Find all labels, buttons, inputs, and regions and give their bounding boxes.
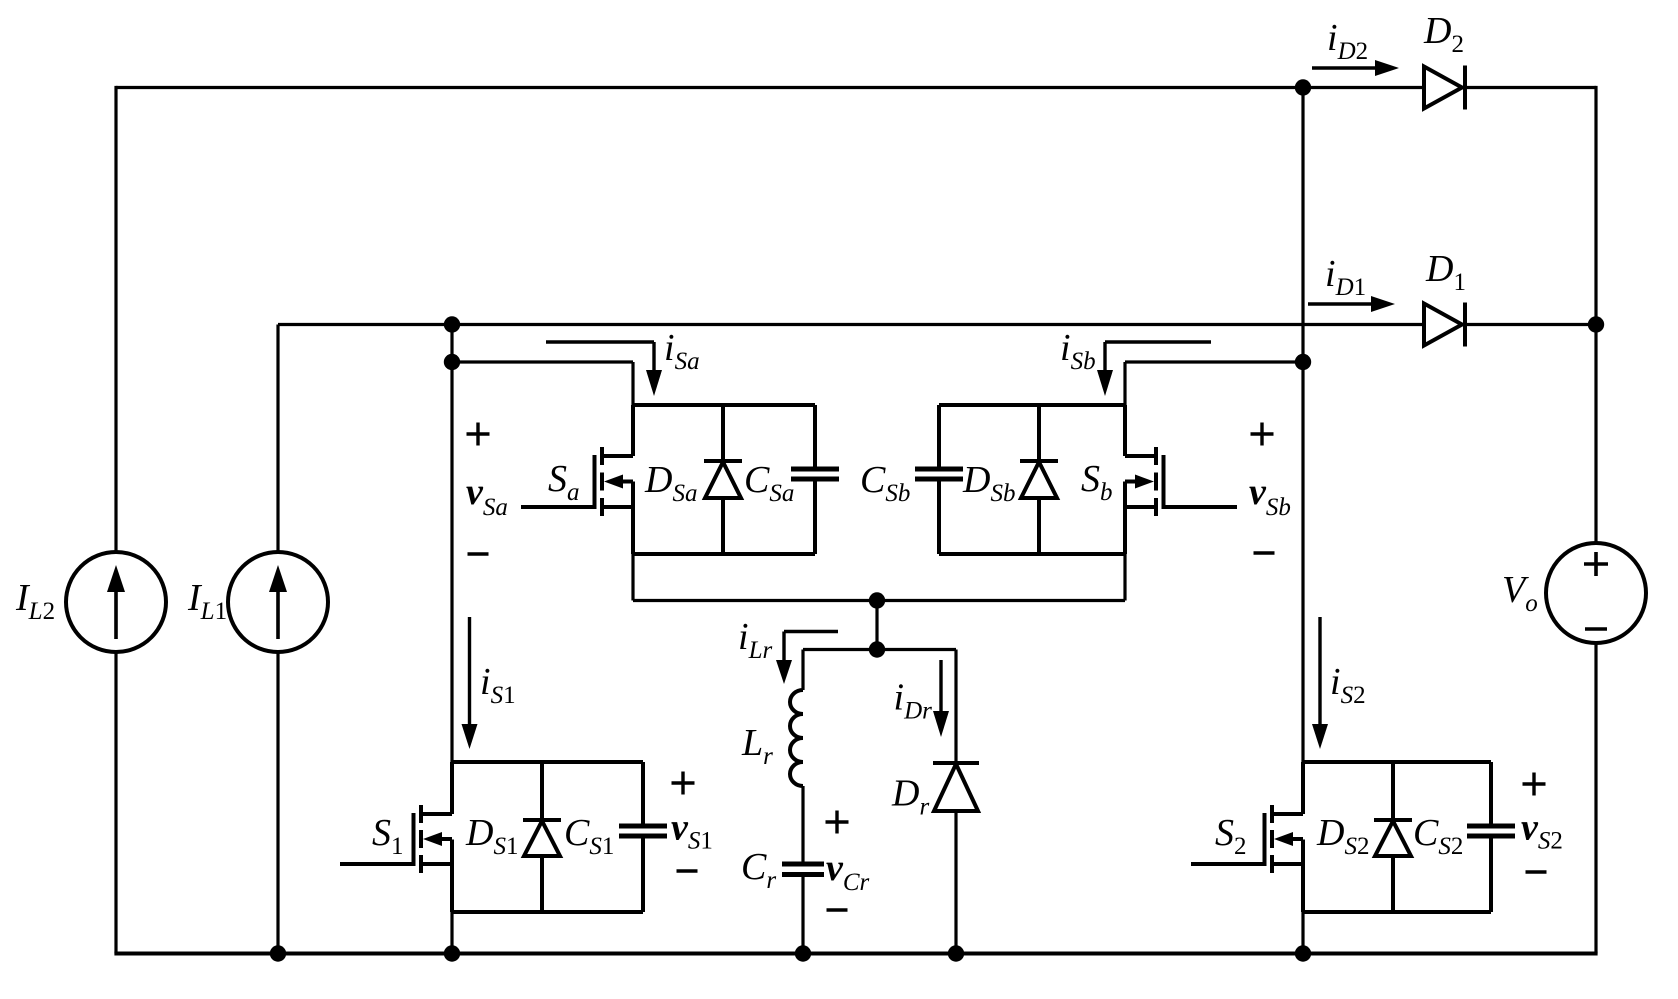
- node S1col-rail2: [444, 316, 460, 332]
- label vS1 minus: [677, 869, 698, 872]
- label Sb: [1081, 458, 1113, 506]
- transistor Sa: [521, 447, 633, 516]
- wire S2 column: [1301, 88, 1304, 763]
- capacitor CSb: [915, 469, 963, 479]
- label iDr: [894, 677, 933, 725]
- voltage source Vo: [1546, 543, 1646, 643]
- label Dr: [891, 773, 929, 821]
- label S2: [1215, 812, 1247, 860]
- label iSb: [1060, 327, 1096, 375]
- wire Sb drain row: [1125, 360, 1303, 363]
- diode D2: [1424, 66, 1465, 110]
- wire S1 column: [450, 325, 453, 763]
- wire S1 source to rail: [450, 912, 453, 954]
- wire left outer edge upper: [114, 86, 117, 552]
- label vCr: [826, 847, 870, 896]
- wire Sb drain drop: [1123, 362, 1126, 405]
- label CS1: [564, 812, 614, 860]
- node source bus mid: [869, 592, 885, 608]
- diode DS1: [523, 762, 561, 912]
- label vSb minus: [1254, 551, 1275, 554]
- label vSb plus: [1251, 423, 1274, 446]
- switch box Sa: [633, 405, 815, 554]
- label CS2: [1413, 812, 1463, 860]
- capacitor CSa: [791, 469, 839, 479]
- node resonant split: [869, 641, 885, 657]
- label CSb: [860, 459, 910, 507]
- wire Sa source drop: [631, 554, 634, 601]
- wire Sa drain row: [452, 360, 633, 363]
- switch box S1: [452, 762, 643, 912]
- label vSa plus: [467, 423, 490, 446]
- label DS2: [1316, 812, 1369, 860]
- wire source bus: [633, 599, 1125, 602]
- label vS2: [1521, 807, 1563, 855]
- transistor S1: [340, 805, 452, 873]
- arrow iS1: [462, 617, 478, 749]
- label vCr minus: [827, 908, 848, 911]
- wire top rail: [116, 86, 1596, 89]
- label vS2 minus: [1526, 870, 1547, 873]
- capacitor CS2: [1467, 826, 1515, 836]
- wire Lr bottom lead: [801, 786, 804, 862]
- label iSa: [664, 327, 700, 375]
- label S1: [372, 812, 404, 860]
- diode DSb: [1020, 405, 1058, 554]
- wire left outer edge lower: [114, 652, 117, 954]
- wire IL1 branch upper: [276, 325, 279, 553]
- diode DSa: [704, 405, 742, 554]
- wire Dr bottom lead: [954, 811, 957, 954]
- label DSa: [644, 459, 697, 507]
- label vSb: [1249, 471, 1291, 521]
- transistor S2: [1191, 805, 1303, 873]
- arrow iD1: [1308, 296, 1395, 312]
- current source IL2: [66, 552, 166, 652]
- node Sa drain: [444, 354, 460, 370]
- wire second rail (D1 row): [278, 323, 1596, 326]
- arrow iDr: [933, 660, 949, 737]
- capacitor Cr: [782, 864, 824, 875]
- node S1-bottom: [444, 945, 460, 961]
- wire bottom rail: [114, 952, 1597, 956]
- wire Lr top lead: [801, 650, 804, 691]
- wire IL1 branch lower: [276, 652, 279, 954]
- wire resonant row: [803, 648, 956, 651]
- label vSa: [466, 471, 508, 521]
- wire Sb source drop: [1123, 554, 1126, 601]
- label iS1: [480, 661, 516, 709]
- node Sb drain: [1295, 354, 1311, 370]
- diode Dr: [933, 763, 979, 811]
- label Lr: [741, 722, 773, 770]
- label iD1: [1325, 253, 1366, 301]
- arrow iS2: [1312, 617, 1328, 749]
- diode D1: [1424, 303, 1465, 347]
- label Vo: [1502, 569, 1538, 617]
- switch box Sb: [939, 405, 1125, 554]
- arrow iSa hook: [546, 342, 662, 396]
- inductor Lr: [790, 690, 803, 786]
- wire Sa drain drop: [631, 362, 634, 405]
- label DSb: [962, 459, 1015, 507]
- label vSa minus: [468, 552, 489, 555]
- label iLr: [738, 616, 772, 664]
- label Sa: [548, 458, 580, 506]
- label iD2: [1327, 17, 1368, 65]
- label vS2 plus: [1523, 773, 1546, 796]
- node mid drop: [875, 601, 878, 650]
- node Cr-bottom: [795, 945, 811, 961]
- label Cr: [741, 846, 776, 894]
- label IL1: [187, 577, 227, 625]
- label vCr plus: [826, 811, 849, 834]
- arrow iLr hook: [776, 632, 838, 685]
- label D2: [1423, 10, 1464, 58]
- label iS2: [1330, 661, 1366, 709]
- transistor Sb: [1125, 447, 1237, 516]
- label CSa: [744, 459, 794, 507]
- label vS1: [671, 807, 713, 855]
- label D1: [1425, 248, 1466, 296]
- wire Dr top lead: [954, 650, 957, 764]
- arrow iD2: [1312, 60, 1399, 76]
- label DS1: [465, 812, 518, 860]
- wire Cr bottom lead: [801, 876, 804, 954]
- wire right edge upper: [1594, 86, 1597, 543]
- node top-D2 junction: [1295, 79, 1311, 95]
- node D1-right junction: [1588, 316, 1604, 332]
- diode DS2: [1374, 762, 1412, 912]
- current source IL1: [228, 552, 328, 652]
- node S2-bottom: [1295, 945, 1311, 961]
- node IL1-bottom: [270, 945, 286, 961]
- node Dr-bottom: [948, 945, 964, 961]
- wire right edge lower: [1594, 643, 1597, 954]
- capacitor CS1: [619, 826, 667, 836]
- switch box S2: [1303, 762, 1491, 912]
- label IL2: [15, 577, 55, 625]
- arrow iSb hook: [1097, 342, 1211, 396]
- wire S2 source to rail: [1301, 912, 1304, 954]
- label vS1 plus: [672, 772, 695, 795]
